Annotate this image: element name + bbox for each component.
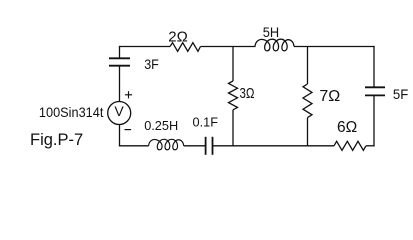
wire 7ohm branch bottom lead <box>307 118 309 146</box>
capacitor 3F plates <box>109 58 130 65</box>
wire left rail middle <box>119 66 121 102</box>
wire bottom rail left segment <box>119 145 149 147</box>
svg-text:6Ω: 6Ω <box>337 119 357 136</box>
wire left rail lower <box>119 124 121 146</box>
label plus polarity <box>125 91 132 98</box>
wire top rail right segment <box>294 46 375 48</box>
wire left rail upper <box>119 46 121 58</box>
resistor 7ohm zigzag <box>303 84 312 118</box>
wire bottom rail middle segment <box>213 145 335 147</box>
capacitor 5F plates <box>365 87 385 95</box>
resistor 2ohm zigzag <box>170 43 201 52</box>
svg-text:5F: 5F <box>393 86 408 102</box>
svg-text:3Ω: 3Ω <box>240 85 255 102</box>
svg-text:7Ω: 7Ω <box>319 88 340 105</box>
wire 3ohm branch top lead <box>232 47 234 82</box>
svg-text:0.1F: 0.1F <box>193 115 219 130</box>
wire top rail left segment <box>119 46 170 48</box>
svg-text:0.25H: 0.25H <box>144 118 178 133</box>
wire top rail middle segment <box>201 46 256 48</box>
svg-text:V: V <box>114 103 124 119</box>
resistor 6ohm zigzag <box>334 141 366 150</box>
resistor 3ohm zigzag <box>229 81 238 110</box>
wire 3ohm branch bottom lead <box>232 110 234 146</box>
capacitor 0.1F plates <box>206 137 213 155</box>
svg-text:5H: 5H <box>263 24 279 40</box>
source V circle <box>108 102 131 125</box>
svg-text:2Ω: 2Ω <box>168 29 188 46</box>
wire right rail lower <box>373 95 375 146</box>
svg-text:100Sin314t: 100Sin314t <box>39 105 104 120</box>
wire bottom rail between L and C <box>184 145 206 147</box>
wire 7ohm branch top lead <box>307 47 309 85</box>
label minus polarity <box>125 129 132 131</box>
svg-text:Fig.P-7: Fig.P-7 <box>30 131 83 149</box>
inductor L 5H coil <box>255 39 294 51</box>
svg-text:3F: 3F <box>144 56 159 72</box>
inductor L 0.25H coil <box>149 139 184 149</box>
wire right rail upper <box>373 46 375 87</box>
wire bottom rail right segment <box>366 145 375 147</box>
